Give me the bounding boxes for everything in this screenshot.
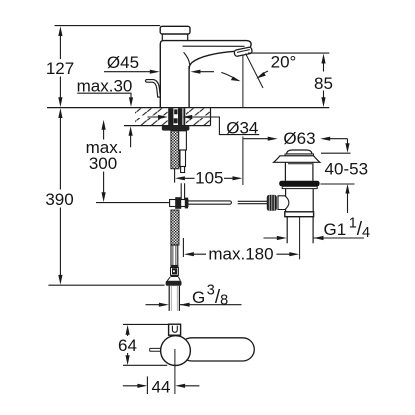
dim max30 lower shaft	[130, 135, 132, 147]
spout top band bottom edge	[183, 45, 245, 47]
countertop top surface line	[47, 107, 329, 109]
dim 390 bottom tick	[48, 284, 164, 286]
dim G1 1/4 leaders	[264, 237, 365, 239]
drain upper body	[285, 162, 313, 181]
svg-text:Ø34: Ø34	[226, 118, 258, 137]
dim max300 line	[103, 129, 105, 194]
dim Ø34 arrows	[158, 115, 192, 119]
dim 390 arrows	[58, 108, 62, 285]
20 deg tilted stream line	[246, 54, 263, 89]
drain flange	[274, 156, 320, 163]
rod-lever collar	[170, 197, 189, 209]
svg-text:127: 127	[46, 59, 74, 78]
svg-text:64: 64	[118, 336, 137, 355]
dim 105 left tick	[174, 169, 176, 183]
dim G3/8 leaders	[146, 304, 242, 306]
hose end connector	[171, 265, 179, 277]
drain pop-up cap dome	[287, 150, 313, 154]
supply pipe below nut	[169, 286, 179, 311]
supply hose braided upper segment	[171, 131, 179, 169]
dim 105 arrows	[175, 176, 242, 180]
dim 40-53 top tick	[321, 152, 351, 154]
20 deg arc left	[221, 72, 235, 78]
body right edge	[188, 66, 190, 108]
G3/8 nut flare	[167, 277, 180, 281]
dim 40-53 lower arrow	[345, 184, 349, 194]
svg-text:Ø63: Ø63	[283, 129, 315, 148]
dim 40-53 upper line	[347, 139, 349, 144]
dim 85 line	[323, 63, 325, 99]
dim 40-53 upper arrow	[345, 143, 349, 153]
spout root fillet	[184, 52, 190, 65]
svg-text:40-53: 40-53	[325, 160, 368, 179]
svg-text:Ø45: Ø45	[107, 53, 139, 72]
dim Ø63 line	[243, 138, 347, 140]
dim 44 left tick	[146, 376, 148, 394]
dim 40-53 bottom tick	[321, 183, 355, 185]
bottom view sensor inner detail	[172, 326, 177, 333]
dim max30 leader	[77, 93, 131, 98]
dim 85 top tick	[248, 52, 329, 54]
dim Ø45 arrows	[150, 70, 201, 74]
drain flange underside line	[288, 163, 312, 165]
bottom view centerline	[174, 349, 176, 394]
dim max180 leader	[194, 253, 291, 255]
faucet body and spout outline	[160, 41, 251, 108]
svg-text:105: 105	[195, 169, 223, 188]
max300 tick / lever left line	[96, 202, 170, 204]
20 deg vertical reference line	[242, 55, 244, 185]
drain lower body	[286, 189, 314, 212]
dim 64 top tick	[123, 323, 169, 325]
countertop right edge	[210, 108, 212, 126]
svg-text:85: 85	[314, 74, 333, 93]
bottom view spout capsule	[180, 338, 254, 361]
dim Ø63 arrows	[268, 137, 331, 141]
mounting washer	[162, 125, 190, 130]
dim max180 arrows	[184, 252, 299, 256]
dim Ø34 leader	[148, 117, 260, 135]
lever rod right segment 1	[188, 201, 231, 204]
svg-text:max.180: max.180	[208, 245, 273, 264]
dim 44 leader	[123, 385, 200, 387]
drain tailpipe	[287, 217, 313, 244]
dim max180 extension line	[182, 238, 184, 257]
countertop hatching right of shank	[186, 108, 210, 125]
G3/8 nut cap	[166, 281, 182, 286]
dim 127 arrows	[58, 26, 62, 107]
svg-text:20°: 20°	[271, 52, 297, 71]
countertop bottom line	[124, 125, 211, 127]
drain o-ring seal	[279, 181, 319, 187]
supply hose braided lower segment	[171, 210, 179, 245]
dim 40-53 lower shaft	[347, 193, 349, 213]
svg-text:300: 300	[89, 154, 117, 173]
svg-text:390: 390	[45, 190, 73, 209]
bottom view body circle	[161, 336, 191, 366]
hose smooth tube	[171, 245, 178, 266]
dim 127 line	[59, 30, 61, 103]
knurled adjuster knob	[267, 195, 277, 211]
countertop hatching left of shank	[135, 108, 168, 125]
faucet cap	[160, 26, 190, 34]
lever rod right segment 2	[238, 201, 267, 203]
dim 64 bottom tick	[123, 364, 167, 366]
temperature lever	[145, 80, 160, 97]
bottom view sensor rect	[169, 324, 181, 335]
20 deg arc right arrowhead	[256, 72, 266, 79]
dim G3/8 arrows	[159, 303, 190, 307]
dim 64 arrows	[126, 325, 130, 365]
20 deg arc left arrowhead	[231, 77, 241, 82]
dim 85 arrows	[321, 54, 325, 108]
spout underside curve	[189, 51, 235, 69]
bottom view left stub	[150, 348, 161, 351]
dim G1 1/4 arrows	[277, 236, 324, 240]
aerator	[234, 47, 253, 57]
dim 44 arrows	[137, 384, 185, 388]
drain nut band	[285, 212, 314, 217]
dim 64 line	[127, 333, 129, 357]
dim 390 line	[59, 117, 61, 276]
faucet shank through countertop	[168, 108, 185, 125]
drain cap base band	[285, 154, 314, 156]
dim 127 top tick	[55, 25, 161, 27]
dim Ø45 leader	[104, 71, 214, 73]
drain side stub	[278, 196, 289, 210]
drain centerline	[299, 217, 301, 260]
pull rod lower pin	[181, 183, 184, 199]
pull rod upper tube	[179, 131, 187, 173]
20 deg arc right	[261, 71, 269, 75]
drain seal step	[282, 186, 317, 188]
dim max30 arrows	[129, 97, 134, 135]
svg-text:max.30: max.30	[77, 76, 133, 95]
dim 105 line	[184, 177, 233, 179]
dim max300 arrows	[102, 120, 106, 202]
faucet neck	[162, 34, 187, 40]
svg-text:44: 44	[152, 377, 171, 396]
